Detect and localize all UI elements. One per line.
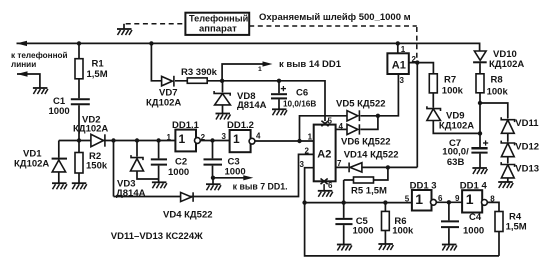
- svg-text:к выв 7 DD1.: к выв 7 DD1.: [233, 182, 288, 192]
- svg-text:Телефонный: Телефонный: [189, 14, 249, 24]
- svg-text:4: 4: [256, 132, 261, 141]
- svg-text:линии: линии: [11, 60, 36, 69]
- svg-text:1: 1: [401, 45, 406, 54]
- svg-text:2: 2: [201, 133, 206, 142]
- svg-text:1: 1: [308, 133, 313, 142]
- svg-text:к телефонной: к телефонной: [11, 51, 68, 60]
- svg-text:DD1.2: DD1.2: [227, 120, 254, 131]
- svg-text:VD6 КД522: VD6 КД522: [341, 137, 391, 148]
- svg-text:R8: R8: [491, 75, 503, 86]
- svg-text:DD1 3: DD1 3: [410, 181, 437, 192]
- svg-text:63В: 63В: [447, 157, 465, 168]
- svg-text:КД102А: КД102А: [489, 59, 524, 70]
- svg-text:1: 1: [179, 132, 186, 146]
- svg-text:A1: A1: [392, 60, 406, 72]
- svg-text:1,5М: 1,5М: [506, 222, 527, 233]
- svg-text:2: 2: [305, 147, 310, 156]
- svg-text:8: 8: [490, 195, 495, 204]
- svg-text:1: 1: [415, 191, 423, 207]
- svg-text:1000: 1000: [49, 106, 70, 117]
- svg-text:КД102А: КД102А: [439, 121, 474, 132]
- svg-text:3: 3: [300, 160, 305, 169]
- svg-text:VD11–VD13 КС224Ж: VD11–VD13 КС224Ж: [111, 231, 203, 242]
- svg-text:к выв 14 DD1: к выв 14 DD1: [279, 59, 342, 70]
- svg-text:10,0/16В: 10,0/16В: [283, 100, 316, 109]
- svg-text:R5 1,5М: R5 1,5М: [351, 186, 387, 197]
- svg-text:9: 9: [455, 194, 460, 203]
- svg-text:R1: R1: [92, 59, 105, 70]
- svg-text:100k: 100k: [487, 87, 509, 98]
- svg-text:аппарат: аппарат: [199, 24, 237, 35]
- svg-text:100k: 100k: [442, 86, 464, 97]
- svg-text:VD5 КД522: VD5 КД522: [336, 98, 386, 109]
- svg-text:C6: C6: [296, 88, 308, 99]
- svg-text:VD13: VD13: [515, 164, 539, 175]
- svg-text:150k: 150k: [86, 161, 108, 172]
- svg-text:R7: R7: [444, 75, 456, 86]
- svg-text:6: 6: [328, 181, 333, 190]
- svg-text:1: 1: [466, 191, 474, 207]
- svg-text:DD1 4: DD1 4: [460, 181, 488, 192]
- svg-text:100,0/: 100,0/: [442, 147, 469, 158]
- svg-text:6: 6: [438, 194, 443, 203]
- svg-text:1000: 1000: [463, 226, 484, 237]
- svg-text:100k: 100k: [392, 226, 414, 237]
- svg-text:VD14 КД522: VD14 КД522: [344, 150, 399, 161]
- svg-text:КД102А: КД102А: [146, 98, 181, 109]
- svg-text:1,5М: 1,5М: [87, 69, 108, 80]
- svg-text:1: 1: [258, 66, 262, 73]
- svg-text:5: 5: [405, 194, 410, 203]
- svg-text:VD12: VD12: [515, 142, 539, 153]
- svg-text:1000: 1000: [225, 167, 246, 178]
- svg-text:DD1.1: DD1.1: [172, 120, 200, 131]
- svg-text:C4: C4: [469, 212, 482, 223]
- svg-text:C2: C2: [175, 157, 187, 168]
- svg-text:R3 390k: R3 390k: [181, 67, 218, 78]
- svg-text:Д814А: Д814А: [237, 100, 267, 111]
- svg-text:2: 2: [412, 55, 417, 64]
- svg-text:КД102А: КД102А: [73, 124, 108, 135]
- svg-text:VD4 КД522: VD4 КД522: [163, 210, 213, 221]
- svg-text:1000: 1000: [168, 167, 189, 178]
- svg-text:A2: A2: [317, 149, 331, 161]
- svg-text:1000: 1000: [353, 226, 374, 237]
- svg-text:Охраняемый шлейф 500_1000 м: Охраняемый шлейф 500_1000 м: [259, 12, 411, 23]
- svg-text:1: 1: [233, 132, 240, 146]
- svg-text:3: 3: [400, 76, 405, 85]
- svg-text:3: 3: [222, 132, 227, 141]
- svg-text:Д814А: Д814А: [116, 188, 146, 199]
- svg-text:7: 7: [337, 159, 342, 168]
- svg-text:5: 5: [328, 117, 333, 126]
- svg-text:1: 1: [167, 133, 172, 142]
- svg-text:4: 4: [339, 122, 344, 131]
- svg-text:VD11: VD11: [515, 118, 539, 129]
- svg-text:КД102А: КД102А: [14, 159, 49, 170]
